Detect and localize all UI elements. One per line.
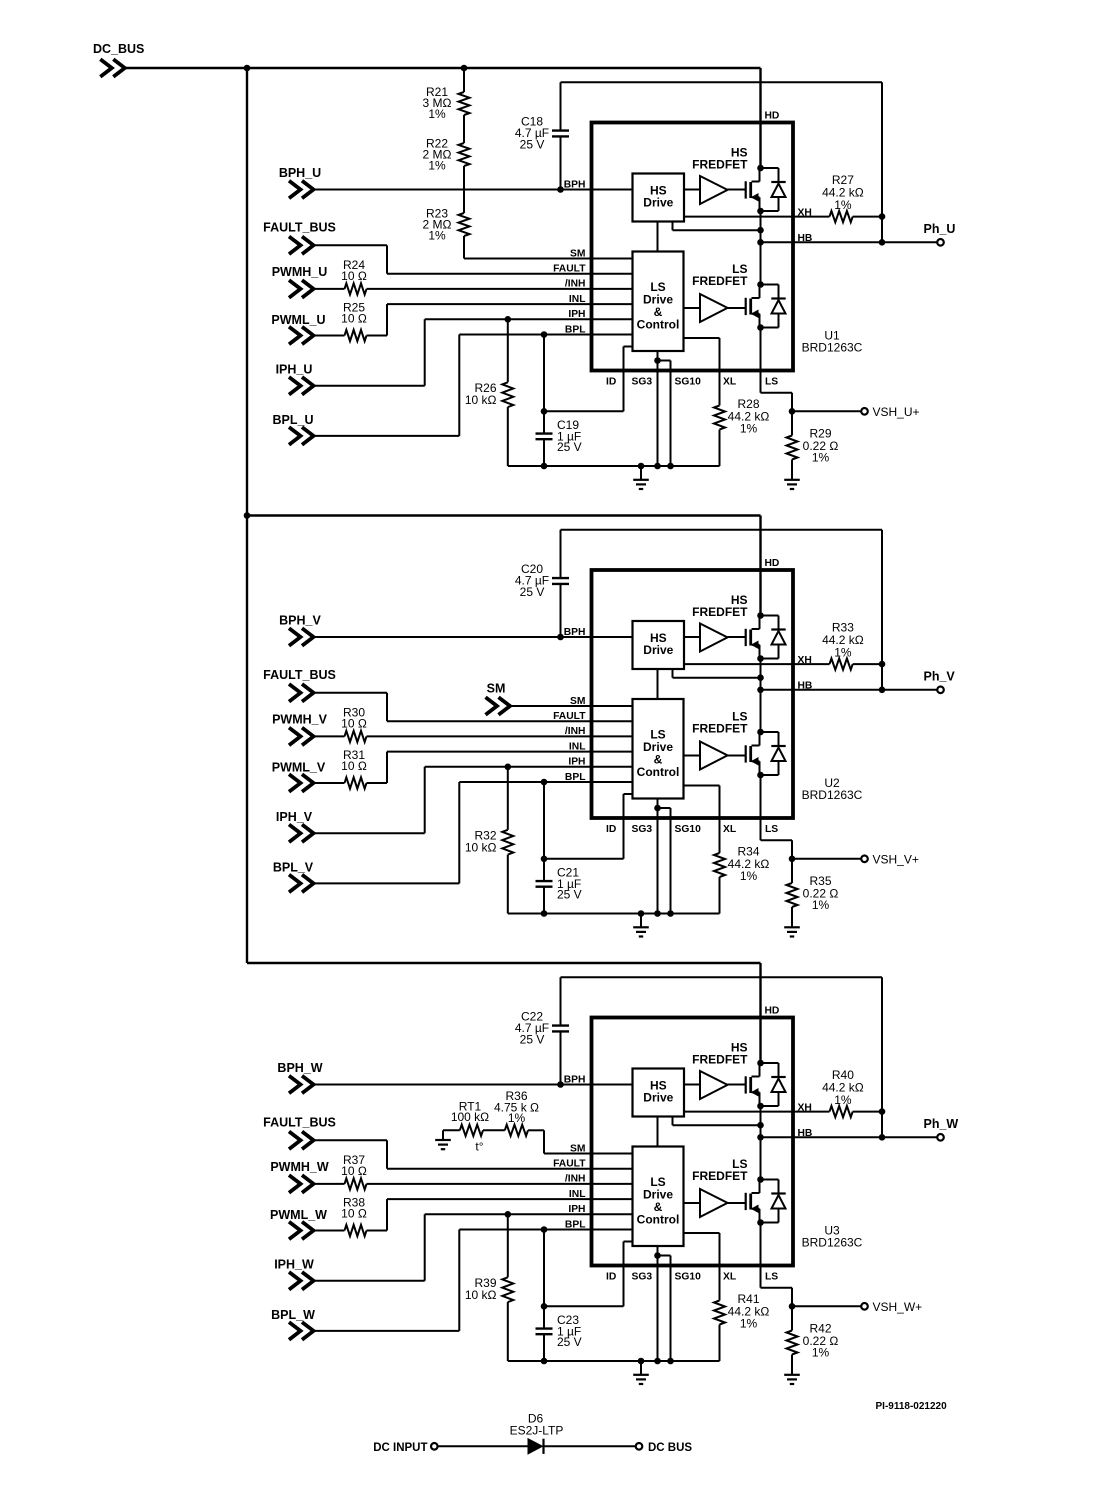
transistor HS FREDFET (U3): [746, 1060, 786, 1110]
terminal Ph_U: [924, 222, 956, 246]
resistor R26 10k: [465, 319, 513, 466]
svg-text:LS: LS: [765, 1271, 778, 1282]
connector IPH_V: [276, 810, 314, 842]
svg-text:Control: Control: [637, 317, 680, 331]
resistor R31 10 ohm: [314, 748, 367, 789]
connector BPH_V: [279, 613, 321, 646]
wire DC bus branch (V phase): [247, 514, 761, 516]
svg-text:BRD1263C: BRD1263C: [802, 788, 863, 802]
resistor R27 44.2k: [822, 173, 864, 222]
svg-text:1%: 1%: [740, 869, 758, 883]
connector PWMH_U: [272, 265, 328, 298]
svg-text:Control: Control: [637, 1212, 680, 1226]
svg-text:BPH_V: BPH_V: [279, 613, 321, 627]
svg-text:BPL_U: BPL_U: [273, 413, 314, 427]
wire D6 to DC bus: [544, 1445, 636, 1447]
transistor HS FREDFET (U1): [746, 165, 786, 215]
transistor LS FREDFET (U1): [746, 281, 786, 331]
junction cap/ID wire: [541, 1303, 548, 1310]
wire BPL row: [314, 1330, 460, 1332]
connector BPL_U: [273, 413, 314, 445]
wire ground rail: [508, 465, 720, 467]
svg-text:BPH: BPH: [564, 627, 586, 638]
resistor R24 10 ohm: [314, 258, 367, 294]
LS Drive & Control block: [633, 1147, 684, 1247]
pin XH / wire: [684, 1111, 830, 1113]
wire bootstrap top: [561, 529, 883, 531]
svg-text:25 V: 25 V: [557, 440, 582, 454]
svg-text:FREDFET: FREDFET: [692, 274, 748, 288]
wire HS drive kelvin tap: [672, 222, 674, 231]
wire PWML to INL: [367, 1230, 388, 1232]
svg-text:25 V: 25 V: [520, 1033, 545, 1047]
svg-text:BPL_W: BPL_W: [271, 1308, 315, 1322]
svg-text:FREDFET: FREDFET: [692, 158, 748, 172]
resistor R21 3M: [423, 68, 470, 121]
pin LS wire: [760, 776, 762, 841]
terminal VSH_W+: [792, 1300, 922, 1314]
svg-text:IPH_U: IPH_U: [276, 363, 313, 377]
pin XL wire: [684, 1232, 720, 1234]
svg-text:1%: 1%: [812, 451, 830, 465]
svg-text:10 Ω: 10 Ω: [341, 759, 367, 773]
svg-text:25 V: 25 V: [520, 138, 545, 152]
pin XH / wire: [684, 663, 830, 665]
svg-text:FREDFET: FREDFET: [692, 605, 748, 619]
pin XL wire: [684, 337, 720, 339]
terminal VSH_V+: [792, 853, 919, 867]
svg-text:FAULT_BUS: FAULT_BUS: [263, 221, 336, 235]
svg-text:10 Ω: 10 Ω: [341, 312, 367, 326]
resistor R25 10 ohm: [314, 301, 367, 342]
pin SG10 wire: [658, 1255, 671, 1257]
wire ground rail: [508, 913, 720, 915]
connector FAULT_BUS (V): [263, 668, 336, 701]
LS buffer: [684, 755, 701, 757]
svg-text:HD: HD: [765, 558, 780, 569]
connector PWML_U: [271, 313, 325, 344]
svg-text:XH: XH: [798, 655, 812, 666]
wire FAULT_BUS to FAULT: [314, 692, 388, 694]
junction cap/ID wire: [541, 856, 548, 863]
svg-text:SG10: SG10: [675, 1271, 702, 1282]
svg-text:BPH_W: BPH_W: [277, 1061, 322, 1075]
ground (RT1): [442, 1130, 444, 1140]
svg-text:1%: 1%: [812, 898, 830, 912]
svg-text:Ph_V: Ph_V: [924, 669, 956, 683]
label HS FREDFET: [692, 146, 748, 172]
connector DC_BUS: [93, 42, 144, 77]
svg-text:SG3: SG3: [632, 824, 653, 835]
wire HS drive kelvin tap: [672, 669, 674, 678]
terminal Ph_W: [924, 1117, 959, 1141]
capacitor C21 1uF: [536, 782, 582, 914]
svg-text:10 kΩ: 10 kΩ: [465, 1288, 497, 1302]
connector BPH_U: [279, 166, 321, 199]
svg-text:XL: XL: [723, 376, 736, 387]
pin SG3 wire: [657, 351, 659, 466]
transistor HS FREDFET (U2): [746, 612, 786, 662]
resistor R39 10k: [465, 1214, 513, 1361]
wire BPH row: [314, 1084, 633, 1086]
svg-text:HB: HB: [798, 1128, 813, 1139]
svg-text:Ph_U: Ph_U: [924, 222, 956, 236]
resistor R38 10 ohm: [314, 1196, 367, 1237]
pin HD: [759, 516, 761, 616]
ground (rail): [640, 1361, 642, 1375]
junction bus/R21: [461, 65, 468, 72]
svg-text:VSH_U+: VSH_U+: [873, 405, 920, 419]
svg-text:BPL_V: BPL_V: [273, 860, 314, 874]
svg-text:10 Ω: 10 Ω: [341, 269, 367, 283]
svg-text:HB: HB: [798, 233, 813, 244]
connector SM: [486, 682, 511, 715]
transistor LS FREDFET (U2): [746, 729, 786, 779]
HS buffer: [684, 189, 700, 191]
svg-text:PWMH_W: PWMH_W: [270, 1160, 329, 1174]
connector IPH_U: [276, 363, 314, 395]
wire /INH row: [367, 288, 633, 290]
svg-text:SG10: SG10: [675, 376, 702, 387]
pin XL wire: [684, 785, 720, 787]
op-amp U1 outline U1: [592, 123, 794, 371]
junction LS/VSH: [789, 1303, 796, 1310]
svg-text:ID: ID: [606, 1271, 616, 1282]
junction cap/ID wire: [541, 408, 548, 415]
wire phase node vertical: [760, 1106, 762, 1180]
svg-text:XL: XL: [723, 1271, 736, 1282]
svg-text:10 Ω: 10 Ω: [341, 1164, 367, 1178]
junction LS/VSH: [789, 408, 796, 415]
capacitor C19 1uF: [536, 335, 582, 467]
LS Drive & Control block: [633, 699, 684, 799]
pin HB / phase output wire: [761, 1136, 938, 1138]
wire DC bus left rail: [246, 68, 248, 963]
wire HS to LS drive: [657, 222, 659, 252]
junction IPH/pulldown: [505, 1211, 512, 1218]
label LS FREDFET: [692, 1157, 748, 1183]
svg-text:10 kΩ: 10 kΩ: [465, 841, 497, 855]
connector IPH_W: [274, 1258, 314, 1290]
svg-text:XH: XH: [798, 208, 812, 219]
resistor R30 10 ohm: [314, 706, 367, 742]
svg-text:1%: 1%: [740, 1317, 758, 1331]
svg-text:VSH_V+: VSH_V+: [873, 853, 919, 867]
svg-text:25 V: 25 V: [557, 888, 582, 902]
label HS FREDFET: [692, 593, 748, 619]
HS Drive block: [633, 621, 685, 669]
connector BPL_V: [273, 860, 314, 892]
resistor R40 44.2k: [822, 1068, 864, 1117]
svg-text:1%: 1%: [834, 198, 852, 212]
ground (rail): [640, 914, 642, 928]
connector PWML_W: [270, 1208, 327, 1239]
pin HB / phase output wire: [761, 241, 938, 243]
svg-text:DC BUS: DC BUS: [648, 1442, 692, 1454]
junction BPH/cap: [557, 186, 564, 193]
svg-text:ID: ID: [606, 376, 616, 387]
svg-text:PWML_V: PWML_V: [272, 760, 326, 774]
svg-text:Drive: Drive: [643, 643, 673, 657]
svg-text:XH: XH: [798, 1103, 812, 1114]
svg-text:BPH_U: BPH_U: [279, 166, 321, 180]
svg-text:ID: ID: [606, 824, 616, 835]
terminal DC BUS: [636, 1442, 693, 1454]
svg-text:PWMH_U: PWMH_U: [272, 265, 328, 279]
pin HD: [759, 963, 761, 1063]
junction IPH/pulldown: [505, 764, 512, 771]
pin SG3 wire: [657, 1246, 659, 1361]
svg-text:HD: HD: [765, 111, 780, 122]
ground (shunt): [791, 907, 793, 927]
junction LS/VSH: [789, 856, 796, 863]
resistor R37 10 ohm: [314, 1153, 367, 1189]
svg-text:FREDFET: FREDFET: [692, 1053, 748, 1067]
capacitor C22: [515, 977, 569, 1084]
svg-text:Ph_W: Ph_W: [924, 1117, 959, 1131]
svg-text:10 kΩ: 10 kΩ: [465, 393, 497, 407]
resistor R32 10k: [465, 767, 513, 914]
svg-text:PI-9118-021220: PI-9118-021220: [876, 1401, 948, 1412]
wire FAULT_BUS to FAULT: [314, 244, 388, 246]
svg-text:DC INPUT: DC INPUT: [373, 1442, 427, 1454]
junction bus/left-rail: [244, 512, 251, 519]
svg-text:t°: t°: [475, 1139, 483, 1153]
junction BPL/cap: [541, 779, 548, 786]
svg-text:LS: LS: [765, 824, 778, 835]
svg-text:LS: LS: [765, 376, 778, 387]
HS buffer: [684, 1084, 700, 1086]
svg-text:1%: 1%: [428, 228, 446, 242]
connector PWML_V: [272, 760, 326, 791]
svg-text:SG10: SG10: [675, 824, 702, 835]
pin ID wire: [624, 1241, 633, 1243]
capacitor C23 1uF: [536, 1230, 582, 1362]
terminal DC INPUT: [373, 1442, 437, 1454]
label LS FREDFET: [692, 710, 748, 736]
HS Drive block: [633, 1069, 685, 1117]
svg-text:100 kΩ: 100 kΩ: [451, 1110, 489, 1124]
HS buffer: [684, 636, 700, 638]
HS Drive block: [633, 174, 685, 222]
resistor R41 44.2k: [714, 1292, 769, 1361]
svg-text:FREDFET: FREDFET: [692, 722, 748, 736]
junction bus/left-rail: [244, 65, 251, 72]
svg-text:1%: 1%: [834, 1093, 852, 1107]
wire FAULT_BUS to FAULT: [314, 1139, 388, 1141]
wire BPH row: [314, 189, 633, 191]
wire bootstrap top: [561, 976, 883, 978]
svg-text:SG3: SG3: [632, 1271, 653, 1282]
svg-text:VSH_W+: VSH_W+: [873, 1300, 923, 1314]
svg-text:PWML_U: PWML_U: [271, 313, 325, 327]
pin ID wire: [624, 346, 633, 348]
label LS FREDFET: [692, 262, 748, 288]
junction BPH/cap: [557, 1081, 564, 1088]
wire HS to LS drive: [657, 1117, 659, 1147]
wire R23 to SM: [463, 236, 465, 259]
svg-text:10 Ω: 10 Ω: [341, 1207, 367, 1221]
pin HD: [759, 68, 761, 168]
pin HB / phase output wire: [761, 689, 938, 691]
svg-text:FAULT_BUS: FAULT_BUS: [263, 668, 336, 682]
wire R36 to SM: [528, 1129, 544, 1131]
ground (shunt): [791, 460, 793, 480]
capacitor C20: [515, 530, 569, 637]
transistor LS FREDFET (U3): [746, 1176, 786, 1226]
resistor R23 2M: [423, 166, 470, 242]
wire SM row: [510, 705, 633, 707]
connector PWMH_V: [272, 712, 328, 745]
svg-text:25 V: 25 V: [520, 585, 545, 599]
svg-text:BRD1263C: BRD1263C: [802, 341, 863, 355]
svg-text:1%: 1%: [428, 158, 446, 172]
svg-text:BRD1263C: BRD1263C: [802, 1236, 863, 1250]
svg-text:PWML_W: PWML_W: [270, 1208, 327, 1222]
terminal Ph_V: [924, 669, 956, 693]
svg-text:25 V: 25 V: [557, 1335, 582, 1349]
ground (shunt): [791, 1355, 793, 1375]
wire BPL row: [314, 435, 460, 437]
wire HS drive kelvin tap: [672, 1117, 674, 1126]
wire IPH row: [314, 385, 425, 387]
svg-text:FREDFET: FREDFET: [692, 1169, 748, 1183]
svg-text:ES2J-LTP: ES2J-LTP: [510, 1424, 564, 1438]
svg-text:BPH: BPH: [564, 1074, 586, 1085]
resistor R29 0.22 ohm: [787, 427, 839, 465]
label HS FREDFET: [692, 1041, 748, 1067]
connector FAULT_BUS (W): [263, 1116, 336, 1149]
wire /INH row: [367, 1183, 633, 1185]
svg-text:PWMH_V: PWMH_V: [272, 712, 328, 726]
connector BPL_W: [271, 1308, 315, 1340]
svg-text:DC_BUS: DC_BUS: [93, 42, 144, 56]
svg-text:IPH_W: IPH_W: [274, 1258, 314, 1272]
terminal VSH_U+: [792, 405, 920, 419]
pin SG3 wire: [657, 799, 659, 914]
junction BPH/cap: [557, 634, 564, 641]
wire DC bus branch (W phase): [247, 962, 761, 964]
svg-text:FAULT_BUS: FAULT_BUS: [263, 1116, 336, 1130]
wire ground rail: [508, 1360, 720, 1362]
wire HS to LS drive: [657, 669, 659, 699]
wire PWML to INL: [367, 782, 388, 784]
wire DC bus branch (U phase): [125, 67, 761, 69]
svg-text:1%: 1%: [740, 422, 758, 436]
svg-text:HB: HB: [798, 681, 813, 692]
svg-text:BPH: BPH: [564, 179, 586, 190]
svg-text:SG3: SG3: [632, 376, 653, 387]
wire phase node vertical: [760, 211, 762, 285]
wire XH to bootstrap node: [853, 1111, 882, 1113]
wire /INH row: [367, 735, 633, 737]
svg-text:1%: 1%: [834, 645, 852, 659]
resistor R28 44.2k: [714, 397, 769, 466]
op-amp U3 outline U3: [592, 1018, 794, 1266]
pin SG10 wire: [658, 360, 671, 362]
pin ID wire: [624, 793, 633, 795]
resistor R42 0.22 ohm: [787, 1322, 839, 1360]
svg-text:1%: 1%: [812, 1346, 830, 1360]
junction BPL/cap: [541, 331, 548, 338]
wire bootstrap top: [561, 81, 883, 83]
pin XH / wire: [684, 216, 830, 218]
connector BPH_W: [277, 1061, 322, 1094]
op-amp U2 outline U2: [592, 570, 794, 818]
ground (rail): [640, 466, 642, 480]
resistor R33 44.2k: [822, 620, 864, 669]
resistor R34 44.2k: [714, 845, 769, 914]
pin LS wire: [760, 1223, 762, 1288]
svg-text:SM: SM: [487, 682, 506, 696]
svg-text:1%: 1%: [508, 1111, 526, 1125]
resistor R22 2M: [423, 115, 470, 172]
LS buffer: [684, 1202, 701, 1204]
thermistor RT1 100k: [443, 1100, 489, 1154]
junction IPH/pulldown: [505, 316, 512, 323]
svg-text:IPH_V: IPH_V: [276, 810, 313, 824]
wire IPH row: [314, 1280, 425, 1282]
connector PWMH_W: [270, 1160, 329, 1193]
svg-text:Drive: Drive: [643, 196, 673, 210]
svg-text:XL: XL: [723, 824, 736, 835]
resistor R35 0.22 ohm: [787, 874, 839, 912]
wire PWML to INL: [367, 335, 388, 337]
svg-text:Control: Control: [637, 765, 680, 779]
wire BPH row: [314, 636, 633, 638]
wire phase node vertical: [760, 659, 762, 733]
svg-text:10 Ω: 10 Ω: [341, 717, 367, 731]
LS Drive & Control block: [633, 252, 684, 352]
LS buffer: [684, 307, 701, 309]
wire BPL row: [314, 882, 460, 884]
pin SG10 wire: [658, 807, 671, 809]
wire XH to bootstrap node: [853, 216, 882, 218]
capacitor C18: [515, 82, 569, 189]
junction BPL/cap: [541, 1226, 548, 1233]
svg-text:HD: HD: [765, 1006, 780, 1017]
svg-text:Drive: Drive: [643, 1091, 673, 1105]
wire IPH row: [314, 832, 425, 834]
wire XH to bootstrap node: [853, 663, 882, 665]
svg-text:1%: 1%: [428, 107, 446, 121]
connector FAULT_BUS (U): [263, 221, 336, 254]
wire DC input to D6: [438, 1445, 528, 1447]
pin LS wire: [760, 328, 762, 393]
resistor R36 4.75k: [483, 1089, 539, 1136]
diode D6 ES2J-LTP: [510, 1412, 564, 1454]
